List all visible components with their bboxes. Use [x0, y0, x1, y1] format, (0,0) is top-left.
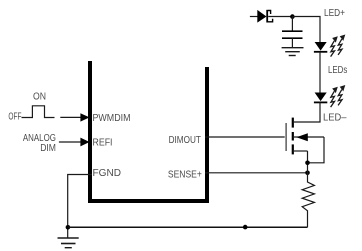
- wire FGND to ground: [68, 175, 92, 238]
- arrow into PWMDIM: [60, 113, 89, 121]
- label DIM: [40, 143, 56, 154]
- svg-text:FGND: FGND: [93, 168, 122, 179]
- svg-text:LED–: LED–: [323, 113, 347, 124]
- label OFF: [8, 112, 21, 123]
- wire DIMOUT to gate: [205, 136, 285, 138]
- svg-text:PWMDIM: PWMDIM: [93, 113, 131, 124]
- LED D3: [314, 93, 327, 103]
- node diode/cap junction: [290, 14, 295, 19]
- light arrows D3: [331, 85, 346, 107]
- svg-text:SENSE+: SENSE+: [168, 170, 202, 181]
- node source/body junction: [305, 161, 310, 166]
- light arrows D2: [331, 35, 346, 57]
- wire bottom rail: [68, 226, 308, 228]
- resistor R1: [302, 173, 314, 228]
- PWM waveform: [22, 106, 55, 118]
- junction on bottom rail: [243, 225, 248, 230]
- svg-text:OFF: OFF: [8, 112, 21, 123]
- LED D2: [314, 42, 327, 52]
- wire LED- to drain: [319, 102, 322, 122]
- wire LED string: [319, 52, 321, 93]
- label LEDs: [328, 65, 347, 76]
- pin DIMOUT: [169, 135, 201, 146]
- label ON: [33, 92, 46, 103]
- arrow into REFI: [59, 138, 90, 147]
- pin PWMDIM: [93, 113, 131, 124]
- wire SENSE+: [205, 172, 308, 174]
- label LED-: [323, 113, 347, 124]
- svg-text:DIM: DIM: [40, 143, 56, 154]
- svg-text:LEDs: LEDs: [328, 65, 347, 76]
- svg-text:REFI: REFI: [93, 138, 113, 149]
- wire to LED+: [292, 17, 320, 43]
- transistor Q1: [286, 118, 324, 173]
- pin SENSE+: [168, 170, 202, 181]
- IC U1: [88, 61, 209, 203]
- ground (bottom left): [58, 238, 79, 248]
- ground (capacitor): [282, 48, 304, 56]
- pin FGND: [93, 168, 122, 179]
- node SENSE+ junction: [305, 171, 310, 176]
- svg-text:ON: ON: [33, 92, 46, 103]
- junction ground node: [66, 225, 71, 230]
- pin REFI: [93, 138, 113, 149]
- svg-text:LED+: LED+: [324, 8, 345, 19]
- label LED+: [324, 8, 345, 19]
- diode D1 (Schottky): [250, 10, 293, 23]
- svg-text:DIMOUT: DIMOUT: [169, 135, 201, 146]
- label ANALOG: [23, 133, 56, 144]
- capacitor C1: [282, 17, 303, 48]
